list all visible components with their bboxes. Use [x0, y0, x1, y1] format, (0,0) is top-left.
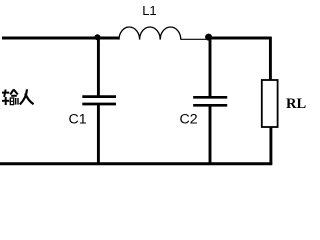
svg-text:C2: C2	[180, 112, 198, 128]
wire: right vertical drop to RL	[269, 37, 272, 81]
wire: thin lead from L1 to node B	[181, 38, 206, 40]
resistor RL body	[262, 80, 278, 127]
wire: C2 upper leg	[209, 37, 212, 97]
svg-text:L1: L1	[142, 3, 156, 18]
wire: RL lower leg	[269, 127, 272, 164]
capacitor C2 bottom plate	[193, 104, 227, 107]
label 输入 (input), hand-drawn glyph strokes: character 输	[2, 89, 18, 105]
wire: C1 upper leg	[97, 37, 100, 96]
node A junction dot (top rail / C1)	[94, 34, 100, 40]
capacitor C2 top plate	[193, 96, 227, 99]
node B junction dot (top rail / C2)	[205, 34, 212, 41]
capacitor C1 bottom plate	[82, 103, 116, 106]
wire: bottom rail	[0, 162, 272, 165]
wire: C1 lower leg	[97, 104, 100, 164]
label 输入 (input): character 入	[20, 89, 34, 104]
svg-text:C1: C1	[69, 112, 87, 128]
inductor L1 (three arcs)	[119, 27, 181, 40]
capacitor C1 top plate	[82, 95, 116, 98]
wire: C2 lower leg	[209, 105, 212, 164]
wire: top rail right segment (node B to RL corner)	[208, 37, 270, 40]
wire: top rail left segment (input to L1)	[2, 37, 119, 40]
svg-text:RL: RL	[286, 96, 306, 112]
